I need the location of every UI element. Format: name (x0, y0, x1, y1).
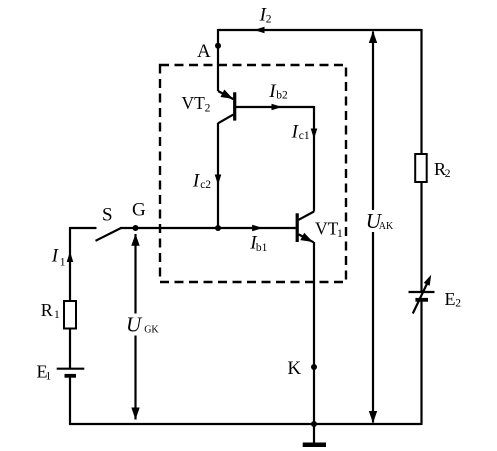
svg-text:A: A (197, 41, 211, 62)
svg-text:c2: c2 (200, 179, 211, 191)
svg-text:1: 1 (60, 257, 66, 269)
svg-text:1: 1 (46, 371, 52, 383)
svg-text:VT: VT (182, 93, 206, 113)
svg-text:G: G (132, 200, 146, 221)
svg-text:1: 1 (337, 228, 343, 240)
svg-text:R: R (41, 300, 53, 320)
svg-text:AK: AK (379, 221, 394, 232)
svg-text:GK: GK (144, 325, 159, 336)
svg-text:2: 2 (266, 14, 272, 26)
svg-text:U: U (126, 312, 143, 336)
svg-text:E: E (445, 289, 456, 309)
svg-text:c1: c1 (299, 130, 310, 142)
svg-text:S: S (102, 204, 113, 225)
svg-text:2: 2 (205, 103, 211, 115)
svg-text:b2: b2 (276, 90, 288, 102)
svg-text:VT: VT (315, 219, 339, 239)
svg-text:K: K (287, 358, 301, 379)
svg-text:b1: b1 (256, 242, 268, 254)
svg-text:2: 2 (455, 298, 461, 310)
svg-text:1: 1 (54, 309, 60, 321)
svg-text:2: 2 (445, 168, 451, 180)
